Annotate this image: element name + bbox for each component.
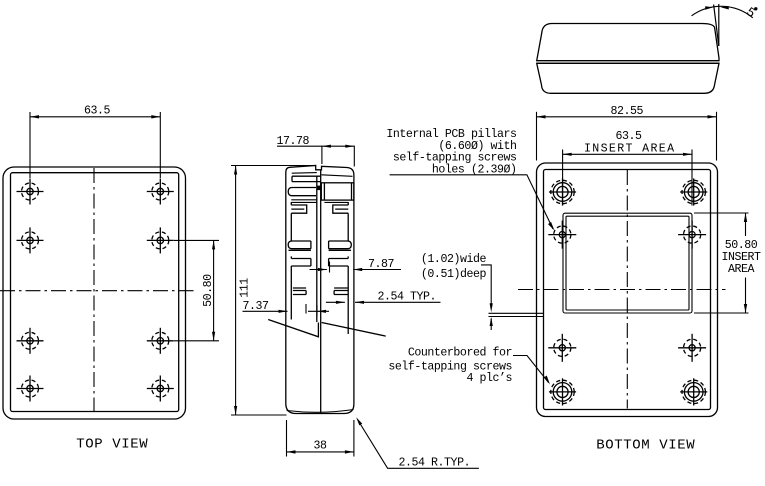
hole TV r1c2 (147, 179, 174, 205)
side view slot F right (329, 259, 349, 267)
svg-text:50.80: 50.80 (202, 274, 215, 307)
iso view 5 degree edge extension line (714, 5, 719, 47)
svg-text:63.5: 63.5 (84, 105, 111, 118)
side view left inner wall (290, 202, 292, 320)
side view outline (286, 166, 354, 414)
side view right inner wall (347, 202, 349, 334)
bottom view horizontal centerline (518, 289, 726, 291)
side view slot F left (291, 259, 311, 267)
iso view degree dot (754, 7, 757, 10)
svg-text:82.55: 82.55 (611, 105, 644, 118)
groove extension lines (489, 313, 544, 316)
counterbored hole BV bottomleft (549, 378, 576, 405)
svg-text:17.78: 17.78 (277, 135, 310, 148)
side view slot G right (334, 288, 348, 295)
side view joint lines left (291, 200, 317, 203)
dimension 7.37 (243, 304, 330, 317)
side view pill E left (288, 241, 311, 250)
side view boss section right (317, 183, 354, 200)
svg-text:111: 111 (239, 278, 252, 298)
svg-text:7.37: 7.37 (243, 300, 270, 313)
dimension 38 (287, 420, 354, 457)
counterbored hole BV topleft (549, 178, 576, 205)
insert area groove rectangle (563, 213, 692, 313)
hole TV r4c2 (147, 376, 174, 402)
dimension 50.80 INSERT AREA right (694, 213, 749, 313)
pillar hole BV midtop left (548, 221, 576, 249)
top view vertical centerline (93, 168, 95, 411)
side view centre rib line (316, 176, 318, 322)
dimension 17.78 (277, 145, 354, 167)
bottom view outer outline (537, 163, 718, 417)
dimension 50.80 top view (174, 240, 219, 340)
svg-text:2.54 TYP.: 2.54 TYP. (378, 291, 437, 304)
side view break line left (268, 320, 318, 337)
dimension 111 (231, 166, 316, 416)
top view horizontal centerline (0, 290, 197, 292)
dimension 2.54 TYP (326, 301, 441, 304)
counterbored hole BV bottomright (680, 378, 707, 405)
hole TV r4c1 (17, 376, 44, 402)
bottom view vertical centerline (626, 170, 628, 409)
side view bottom face curve (287, 410, 354, 413)
side view screw pill left (288, 188, 316, 196)
side view slot G left (293, 288, 306, 295)
side view lid top inner line left (292, 172, 317, 175)
side view joint lines right (324, 201, 348, 203)
side view centre parting line (320, 170, 322, 413)
note 2.54 R.TYP leader (356, 417, 479, 468)
side view slot D right (333, 205, 349, 213)
side view pill E right (329, 241, 352, 250)
svg-text:INSERT AREA: INSERT AREA (584, 143, 675, 156)
dimension 7.87 (310, 262, 402, 273)
svg-text:BOTTOM VIEW: BOTTOM VIEW (596, 438, 695, 454)
iso view 5 degree arrowheads (705, 6, 713, 10)
dimension 82.55 (537, 112, 717, 161)
top view outer outline (3, 167, 186, 419)
pillar hole BV midbottom left (548, 334, 576, 362)
top view inner outline (11, 173, 179, 412)
hole TV r3c2 (147, 328, 174, 354)
side view lid inner line right (322, 175, 353, 177)
iso view lid (537, 24, 719, 61)
svg-text:38: 38 (314, 440, 328, 453)
bottom view inner outline (544, 170, 711, 410)
pillar hole BV midbottom right (678, 334, 706, 362)
svg-text:TOP VIEW: TOP VIEW (76, 437, 148, 453)
side view break line right (322, 323, 386, 337)
note groove leader and arrows (481, 265, 493, 330)
hole TV r2c1 (17, 227, 44, 253)
svg-text:2.54 R.TYP.: 2.54 R.TYP. (399, 457, 471, 470)
hole TV r1c1 (17, 179, 44, 205)
iso view 5 degree reference line (718, 4, 720, 46)
iso view base (537, 63, 719, 93)
counterbored hole BV topright (680, 178, 707, 205)
svg-text:63.5: 63.5 (616, 130, 643, 143)
iso view 5 degree arc (692, 6, 753, 18)
side view slot D left (291, 205, 306, 213)
dimension 63.5 INSERT AREA (563, 150, 692, 206)
svg-text:7.87: 7.87 (368, 258, 395, 271)
hole TV r3c1 (17, 328, 44, 354)
pillar hole BV midtop right (678, 221, 706, 249)
note counterbored leader (513, 356, 550, 385)
note internal PCB pillars leader (390, 175, 555, 231)
hole TV r2c2 (147, 227, 174, 253)
iso view parting line (537, 62, 719, 64)
dimension 63.5 top view (30, 112, 160, 178)
side view lid lip bar left (292, 176, 321, 181)
